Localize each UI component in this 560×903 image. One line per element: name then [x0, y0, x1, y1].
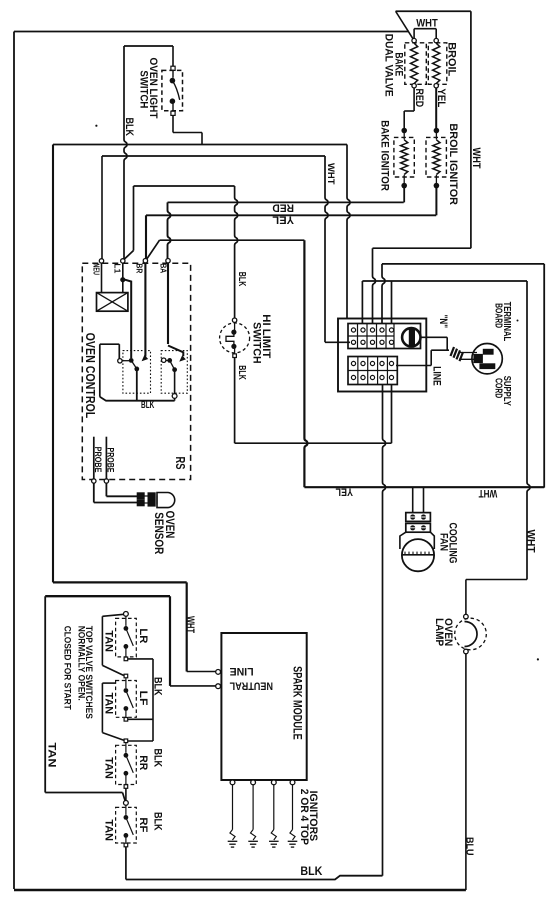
svg-text:CORD: CORD [493, 378, 504, 398]
svg-text:TAN: TAN [102, 757, 114, 779]
svg-text:BLK: BLK [151, 812, 163, 831]
svg-text:RED: RED [413, 89, 425, 108]
svg-text:SPARK MODULE: SPARK MODULE [290, 666, 303, 740]
svg-text:SENSOR: SENSOR [152, 512, 165, 554]
svg-text:BROIL: BROIL [445, 42, 457, 76]
svg-text:PROBE: PROBE [105, 448, 115, 474]
svg-text:TAN: TAN [45, 743, 57, 768]
svg-text:RF: RF [137, 817, 149, 832]
svg-text:BLK: BLK [300, 865, 322, 878]
svg-text:YEL: YEL [336, 485, 353, 497]
svg-text:BOARD: BOARD [493, 303, 504, 328]
svg-text:LINE: LINE [229, 665, 253, 677]
svg-text:DUAL VALVE: DUAL VALVE [382, 34, 394, 97]
svg-text:RR: RR [137, 755, 149, 770]
svg-text:BA: BA [158, 263, 168, 273]
svg-text:WHT: WHT [184, 616, 196, 634]
svg-text:RED: RED [272, 201, 294, 213]
svg-text:CLOSED FOR START: CLOSED FOR START [62, 626, 73, 711]
svg-text:"N": "N" [436, 315, 448, 329]
svg-text:LR: LR [137, 628, 149, 643]
svg-text:BAKE IGNITOR: BAKE IGNITOR [378, 120, 390, 191]
svg-text:TAN: TAN [102, 693, 114, 715]
svg-text:WHT: WHT [326, 163, 337, 185]
svg-text:RS: RS [173, 457, 186, 470]
svg-text:WHT: WHT [478, 487, 497, 499]
svg-text:NORMALLY OPEN.: NORMALLY OPEN. [76, 626, 87, 701]
svg-text:OVEN CONTROL: OVEN CONTROL [83, 333, 97, 419]
svg-text:BROIL IGNITOR: BROIL IGNITOR [446, 123, 458, 205]
svg-text:L1: L1 [112, 263, 122, 274]
svg-text:BLK: BLK [151, 749, 163, 768]
svg-text:WHT: WHT [470, 148, 482, 170]
svg-text:BLK: BLK [151, 677, 163, 696]
svg-text:TAN: TAN [102, 630, 114, 652]
svg-text:PROBE: PROBE [93, 447, 103, 474]
svg-text:LAMP: LAMP [433, 618, 445, 646]
svg-text:BLK: BLK [141, 399, 155, 410]
svg-text:BLK: BLK [122, 118, 134, 137]
svg-text:NEU: NEU [91, 263, 101, 275]
svg-text:BLK: BLK [237, 272, 248, 287]
svg-text:WHT: WHT [416, 18, 438, 30]
svg-text:LINE: LINE [430, 366, 442, 386]
svg-text:WHT: WHT [524, 530, 536, 554]
svg-text:SWITCH: SWITCH [137, 70, 149, 108]
svg-text:BLK: BLK [237, 365, 248, 380]
svg-text:TAN: TAN [102, 819, 114, 841]
svg-text:YEL: YEL [272, 213, 294, 225]
svg-text:2 OR 4 TOP: 2 OR 4 TOP [297, 789, 309, 846]
svg-text:YEL: YEL [435, 89, 447, 108]
svg-text:NEUTRAL: NEUTRAL [230, 679, 273, 691]
svg-text:FAN: FAN [437, 533, 449, 551]
svg-text:BLU: BLU [464, 837, 475, 856]
svg-text:LF: LF [137, 691, 149, 706]
svg-text:SWITCH: SWITCH [250, 322, 262, 364]
svg-text:BR: BR [134, 263, 144, 273]
